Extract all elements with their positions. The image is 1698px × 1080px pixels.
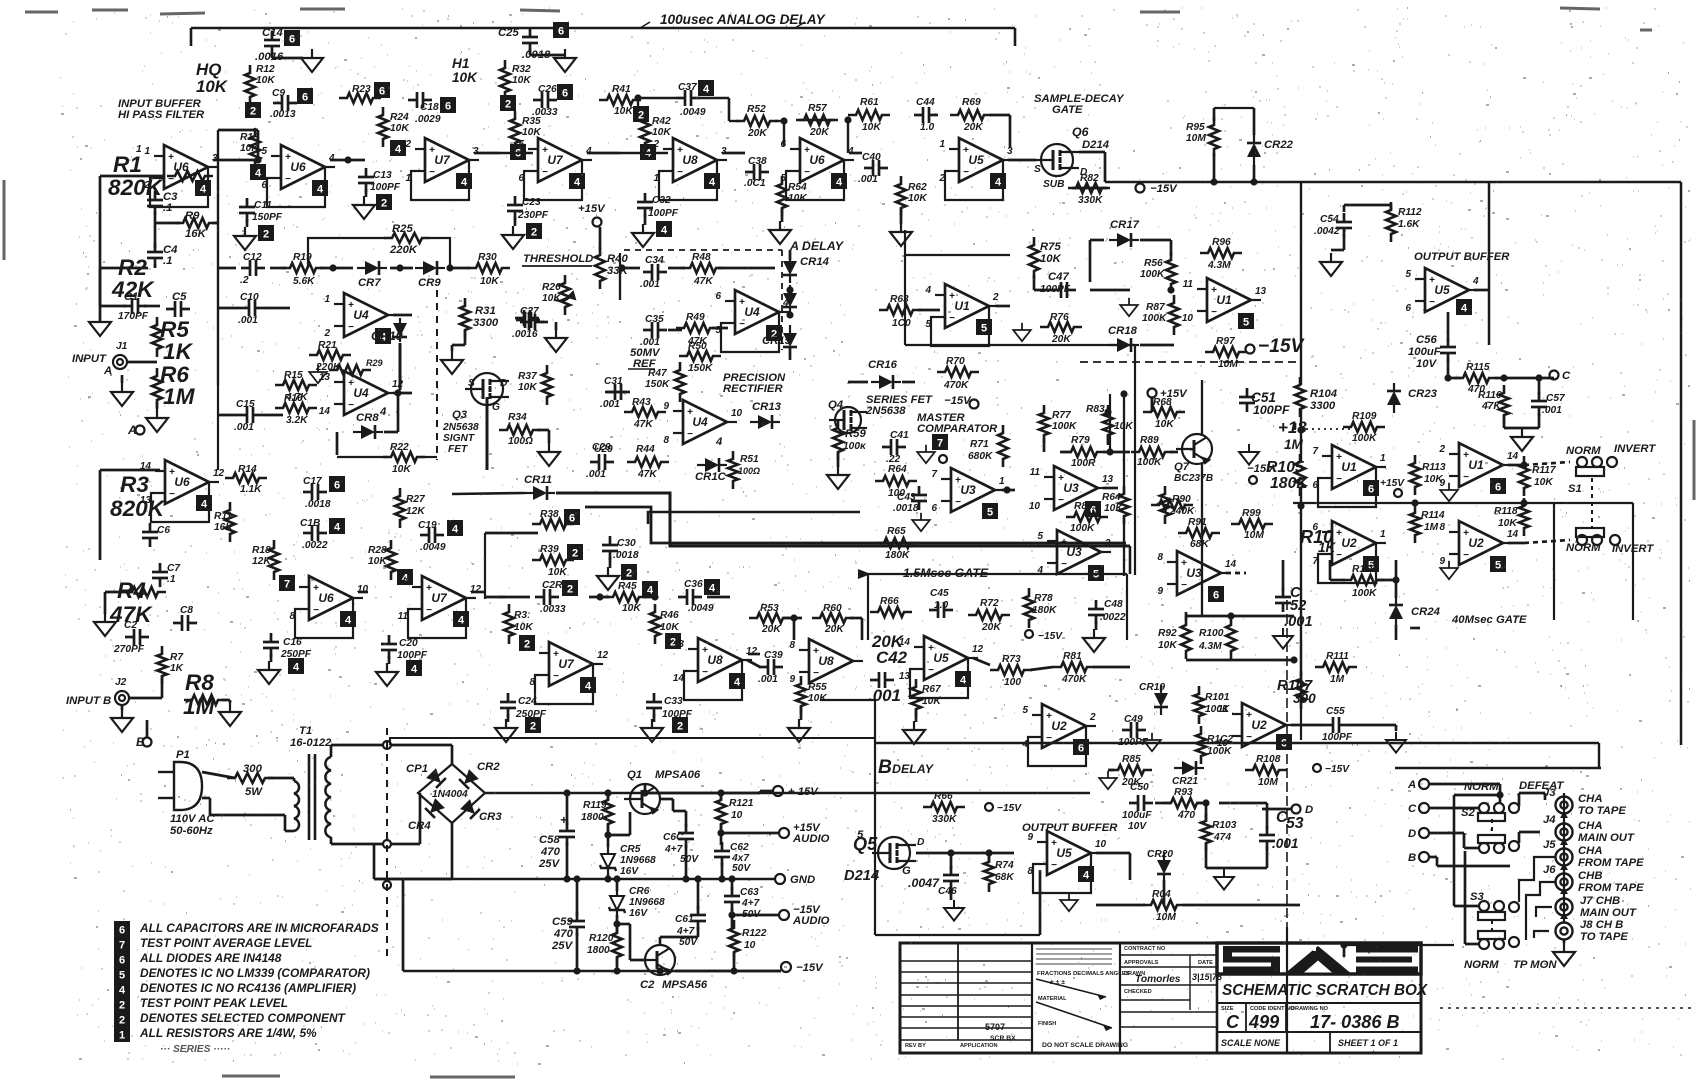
feedback loop wire [150,167,208,207]
op-amp U4 [715,290,789,336]
test point box 2 [376,194,392,210]
feedback loop wire [931,306,989,346]
svg-text:FROM TAPE: FROM TAPE [1578,882,1644,894]
ground C48 [1083,629,1105,652]
capacitor C52 [1275,588,1291,612]
dashed line transformer boundary [386,728,388,960]
wire [1140,344,1174,347]
svg-text:C32: C32 [652,195,671,206]
svg-text:C57: C57 [1546,393,1566,404]
resistor R18 [269,540,279,580]
ground small [309,365,327,383]
wire R2 row [100,267,148,270]
svg-text:C36: C36 [684,579,703,590]
svg-text:47K: 47K [633,419,653,430]
svg-text:4: 4 [836,177,843,189]
wire R92 R100 top [1186,615,1231,618]
wire input to R1 [100,175,165,178]
svg-text:C48: C48 [1104,599,1123,610]
diode CR24 [1389,597,1403,627]
wire [1170,240,1173,256]
wire R92 R100 bottom [1186,659,1231,662]
op-amp U4 [319,371,404,417]
svg-text:NORM: NORM [1464,959,1499,971]
op-amp U2 [1217,703,1296,749]
resistor R16 [275,403,317,413]
svg-text:R71: R71 [970,439,989,450]
wire bottom路 [875,934,1040,936]
svg-text:C7: C7 [167,563,181,574]
capacitor C62 [714,842,730,866]
svg-text:10M: 10M [1218,359,1238,370]
wire [1266,803,1269,829]
svg-text:−: − [348,400,354,411]
wire [668,329,682,332]
svg-text:150PF: 150PF [252,212,283,223]
wire long b-delay horizontal [390,738,875,745]
wire junction [563,789,570,796]
wire [1465,943,1479,946]
svg-text:U4: U4 [692,415,708,429]
wire R95 CR22 top [1214,107,1254,109]
svg-text:APPLICATION: APPLICATION [960,1043,998,1049]
ground jacks [1553,943,1575,966]
svg-text:7: 7 [937,438,943,450]
wire [721,792,760,795]
svg-text:MATERIAL: MATERIAL [1038,996,1067,1002]
divider [1329,1032,1331,1053]
svg-text:−: − [1058,495,1064,506]
ground R8 [219,703,241,726]
wire [1033,275,1036,290]
capacitor C60 [678,824,694,848]
wire junction [1250,178,1257,185]
svg-text:−15V: −15V [796,962,824,974]
wire [374,878,452,881]
wire junction [682,875,689,882]
ground small [1143,733,1161,751]
diode CR18 [1109,338,1139,352]
svg-text:−: − [1336,474,1342,485]
wire junction [613,875,620,882]
svg-text:1C0: 1C0 [892,318,911,329]
wire [397,393,400,432]
resistor R7 [157,646,167,684]
svg-text:10K: 10K [1104,503,1123,514]
svg-text:5: 5 [1022,705,1028,716]
ground C13 [353,196,375,219]
wire junction [786,286,793,293]
svg-text:.001: .001 [1542,405,1562,416]
svg-text:150K: 150K [645,379,670,390]
capacitor C45 [929,602,953,618]
svg-text:R104: R104 [1310,388,1338,400]
svg-text:5: 5 [981,323,987,335]
wire [789,250,792,260]
svg-text:25V: 25V [538,858,561,870]
op-amp U6 [289,576,368,622]
svg-text:300: 300 [243,763,263,775]
svg-text:R3ː: R3ː [514,610,530,621]
wire [733,952,736,971]
resistor R26 pot [560,275,570,315]
wire [530,54,565,57]
wire [644,214,647,225]
svg-text:10K: 10K [392,464,411,475]
wire [861,618,864,640]
dashed S2 link [1491,819,1493,834]
svg-text:CR22: CR22 [1264,139,1294,151]
svg-text:U8: U8 [682,153,698,167]
svg-text:SCALE NONE: SCALE NONE [1221,1038,1281,1048]
jack J5 [1556,849,1573,866]
wire [1518,793,1521,806]
wire [498,596,505,599]
wire junction [1210,178,1217,185]
wire junction [613,920,620,927]
resistor R108 [1245,765,1287,775]
feedback loop wire [1318,467,1376,507]
op-amp U3 [931,468,1005,514]
wire [1331,249,1344,252]
junction [844,116,851,123]
wire [732,914,779,917]
svg-text:.001: .001 [1272,836,1298,851]
wire [129,697,162,700]
test point box 4 [704,173,720,189]
svg-text:−: − [429,167,435,178]
wire [566,793,569,825]
test point box 6 [564,509,580,525]
resistor R6 [152,368,162,408]
terminal +15V AUDIO [779,828,789,838]
svg-text:2: 2 [1089,712,1096,723]
resistor R95 [1209,117,1219,157]
ground [94,613,116,636]
capacitor C42 [870,672,894,688]
op-amp U7 [397,576,482,622]
wire [1508,464,1524,467]
resistor R81 [1053,662,1095,672]
wire [330,745,333,757]
svg-text:8: 8 [1439,522,1445,533]
title block divider v1 [957,943,959,1040]
test point box 6 [440,97,456,113]
svg-text:.0042: .0042 [1314,226,1340,237]
wire [262,414,283,417]
wire [1093,666,1130,669]
wire junction [344,156,351,163]
wire [402,879,405,971]
test point box 4 [640,144,656,160]
wire [388,656,391,664]
svg-text:8: 8 [663,435,669,446]
wire [659,937,662,945]
svg-text:R25: R25 [392,223,413,235]
svg-text:100Ω: 100Ω [508,436,533,447]
diode CR20 [1157,852,1171,882]
diode CR7 [357,261,387,275]
svg-text:50V: 50V [679,937,698,948]
resistor R33 [504,604,514,644]
jack J2 INPUT B [115,691,129,705]
svg-text:180K: 180K [1032,605,1057,616]
svg-text:−15V: −15V [997,803,1022,814]
resistor R22 [383,452,425,462]
svg-text:10K: 10K [518,382,537,393]
svg-text:C35: C35 [645,314,664,325]
wire [1464,851,1467,944]
wire [1437,865,1510,868]
svg-text:C50: C50 [1130,782,1149,793]
svg-text:2: 2 [119,1015,125,1027]
svg-text:TP MON: TP MON [1513,959,1557,971]
capacitor C7 [152,563,168,587]
wire junction [1340,941,1347,948]
wire [121,705,124,710]
wire to R52 [729,120,739,122]
svg-text:R120: R120 [589,933,614,944]
pot wiper R26 [555,292,575,301]
capacitor C47 [1052,282,1076,298]
wire junction [329,264,336,271]
wire [384,431,398,434]
svg-text:R97: R97 [1216,336,1236,347]
test point box 6 [329,476,345,492]
capacitor C12 [241,260,265,276]
wire long -15V row [905,344,1135,346]
wire [1039,870,1042,935]
svg-text:U4: U4 [744,305,760,319]
wire [721,863,724,879]
svg-text:6: 6 [1312,522,1318,533]
svg-text:20K: 20K [824,624,844,635]
svg-text:2N5638: 2N5638 [865,405,906,417]
title divider2 [1217,1031,1421,1033]
svg-text:1M: 1M [163,384,196,409]
junction [634,94,641,101]
resistor [1151,500,1193,510]
ground R6 [146,409,168,432]
resistor R55 [796,676,806,714]
wire [270,267,286,270]
resistor R100 [1226,617,1236,659]
resistor R31 [460,298,470,338]
svg-text:R117: R117 [1532,465,1557,476]
svg-text:R41: R41 [612,84,631,95]
resistor R25 [384,233,430,243]
capacitor C29 [590,454,614,470]
svg-text:10K: 10K [622,603,641,614]
wire junction [1411,499,1418,506]
wire OB out [1474,289,1489,292]
wire [447,267,470,270]
wire junction [1167,286,1174,293]
wire branch [1109,394,1111,452]
test point box 6 [1276,734,1292,750]
resistor R117 [1519,456,1529,496]
wire [1524,540,1570,543]
svg-text:−: − [542,167,548,178]
svg-text:U1: U1 [1341,460,1357,474]
resistor R70 [937,367,979,377]
capacitor C48 [1088,600,1104,624]
test point box 4 [390,140,406,156]
svg-text:−15V: −15V [1150,183,1178,195]
svg-text:.0018: .0018 [305,499,331,510]
wire junction [947,849,954,856]
svg-text:FINISH: FINISH [1038,1021,1056,1027]
svg-text:OUTPUT BUFFER: OUTPUT BUFFER [1414,251,1510,263]
op-amp U1 [924,284,999,330]
resistor R122 [729,920,739,960]
resistor R114 [1410,505,1420,543]
wire down to U6 out [847,120,849,153]
svg-text:−15V: −15V [1258,336,1306,357]
wire B delay vertical [874,700,876,790]
svg-text:6: 6 [1078,743,1084,755]
svg-text:14: 14 [1507,529,1519,540]
transistor Q1 [624,784,660,814]
wire right edge down [1632,503,1634,620]
svg-text:CR13: CR13 [752,401,782,413]
wire junction [1496,791,1503,798]
svg-text:100R: 100R [1071,458,1096,469]
svg-text:+: + [168,152,174,163]
ground R34 [538,443,560,466]
test point box 5 [1363,556,1379,572]
wire junction [786,311,793,318]
switch S3 row2 [1478,931,1519,949]
terminal -15V AUDIO [779,910,789,920]
resistor R62 [896,176,906,216]
svg-text:R27: R27 [406,494,426,505]
wire [1395,725,1398,731]
svg-text:B: B [136,735,145,749]
svg-text:5707: 5707 [985,1022,1005,1032]
svg-text:13: 13 [899,671,911,682]
wire [537,429,549,432]
capacitor C37 [676,90,700,106]
resistor R27 [395,488,405,528]
wire [1538,378,1541,395]
ground near C27 [545,329,567,352]
resistor R101 [1194,686,1204,724]
wire bus tie down [1129,546,1132,574]
svg-text:R21: R21 [318,340,337,351]
terminal [939,455,947,463]
svg-text:R22: R22 [390,442,409,453]
svg-text:.0033: .0033 [540,604,566,615]
svg-text:1.1K: 1.1K [240,484,262,495]
svg-text:10K: 10K [522,127,541,138]
capacitor C53 [1259,826,1275,850]
resistor R21 [309,350,351,360]
wire [747,660,760,667]
resistor R74 [984,854,994,892]
svg-text:C: C [1408,803,1417,815]
wire [1226,572,1246,575]
resistor R90 [1160,486,1170,524]
wire [1206,867,1224,870]
svg-text:2N5638: 2N5638 [442,422,479,433]
svg-text:C16: C16 [283,637,302,648]
capacitor C2 [125,629,149,645]
svg-text:C47: C47 [1048,271,1069,283]
ground at C1 [89,313,111,336]
test point box 6 [1085,501,1101,517]
wire [990,114,1010,117]
wire A [1429,783,1500,786]
svg-text:2: 2 [505,99,511,111]
title block row line 4 [900,1005,1032,1007]
svg-text:+: + [1051,838,1057,849]
wire junction [694,875,701,882]
wire [1108,769,1114,772]
wire vertical [484,533,486,599]
terminal sec bot [383,881,391,889]
svg-text:6: 6 [558,26,564,38]
legend box 2 [114,996,130,1012]
svg-text:4: 4 [960,675,967,687]
terminal GND [775,874,785,884]
svg-text:+: + [348,300,354,311]
svg-text:C43: C43 [897,492,916,503]
resistor 300 5W [227,773,273,783]
wire [874,700,876,738]
svg-text:U7: U7 [434,153,451,167]
svg-text:4: 4 [255,168,262,180]
svg-text:S: S [1034,164,1041,175]
svg-text:10: 10 [1182,313,1194,324]
op-amp U5 [899,636,984,682]
svg-text:14: 14 [1507,451,1519,462]
svg-text:R72: R72 [980,598,999,609]
svg-text:R96: R96 [1212,237,1231,248]
wire junction [1392,576,1399,583]
resistor R54 [777,176,787,216]
wire [759,791,762,793]
test point box 4 [580,677,596,693]
wire heavy delay bus route 2 [585,507,1126,543]
svg-text:10K: 10K [908,193,927,204]
svg-text:20K: 20K [747,128,767,139]
test point box 4 [456,173,472,189]
svg-text:10K: 10K [788,193,807,204]
svg-text:TEST POINT PEAK LEVEL: TEST POINT PEAK LEVEL [140,996,288,1010]
svg-text:6: 6 [379,86,385,98]
wire [607,875,610,879]
svg-text:7: 7 [1312,446,1318,457]
wire [218,414,238,417]
wire R42 top stub [637,98,639,112]
svg-text:CR18: CR18 [1108,325,1138,337]
svg-text:INVERT: INVERT [1614,443,1656,455]
svg-text:CR16: CR16 [868,359,898,371]
wire [1095,621,1098,630]
wire [660,936,698,939]
terminal -15V [781,962,791,972]
svg-text:.001: .001 [586,469,606,480]
svg-text:53: 53 [1286,815,1304,832]
svg-text:C20: C20 [399,638,418,649]
svg-text:CR3: CR3 [479,811,502,823]
svg-text:25V: 25V [551,940,574,952]
resistor R72 [968,610,1010,620]
svg-text:13: 13 [1255,286,1267,297]
capacitor C36b [678,589,702,605]
capacitor C28 [535,589,559,605]
